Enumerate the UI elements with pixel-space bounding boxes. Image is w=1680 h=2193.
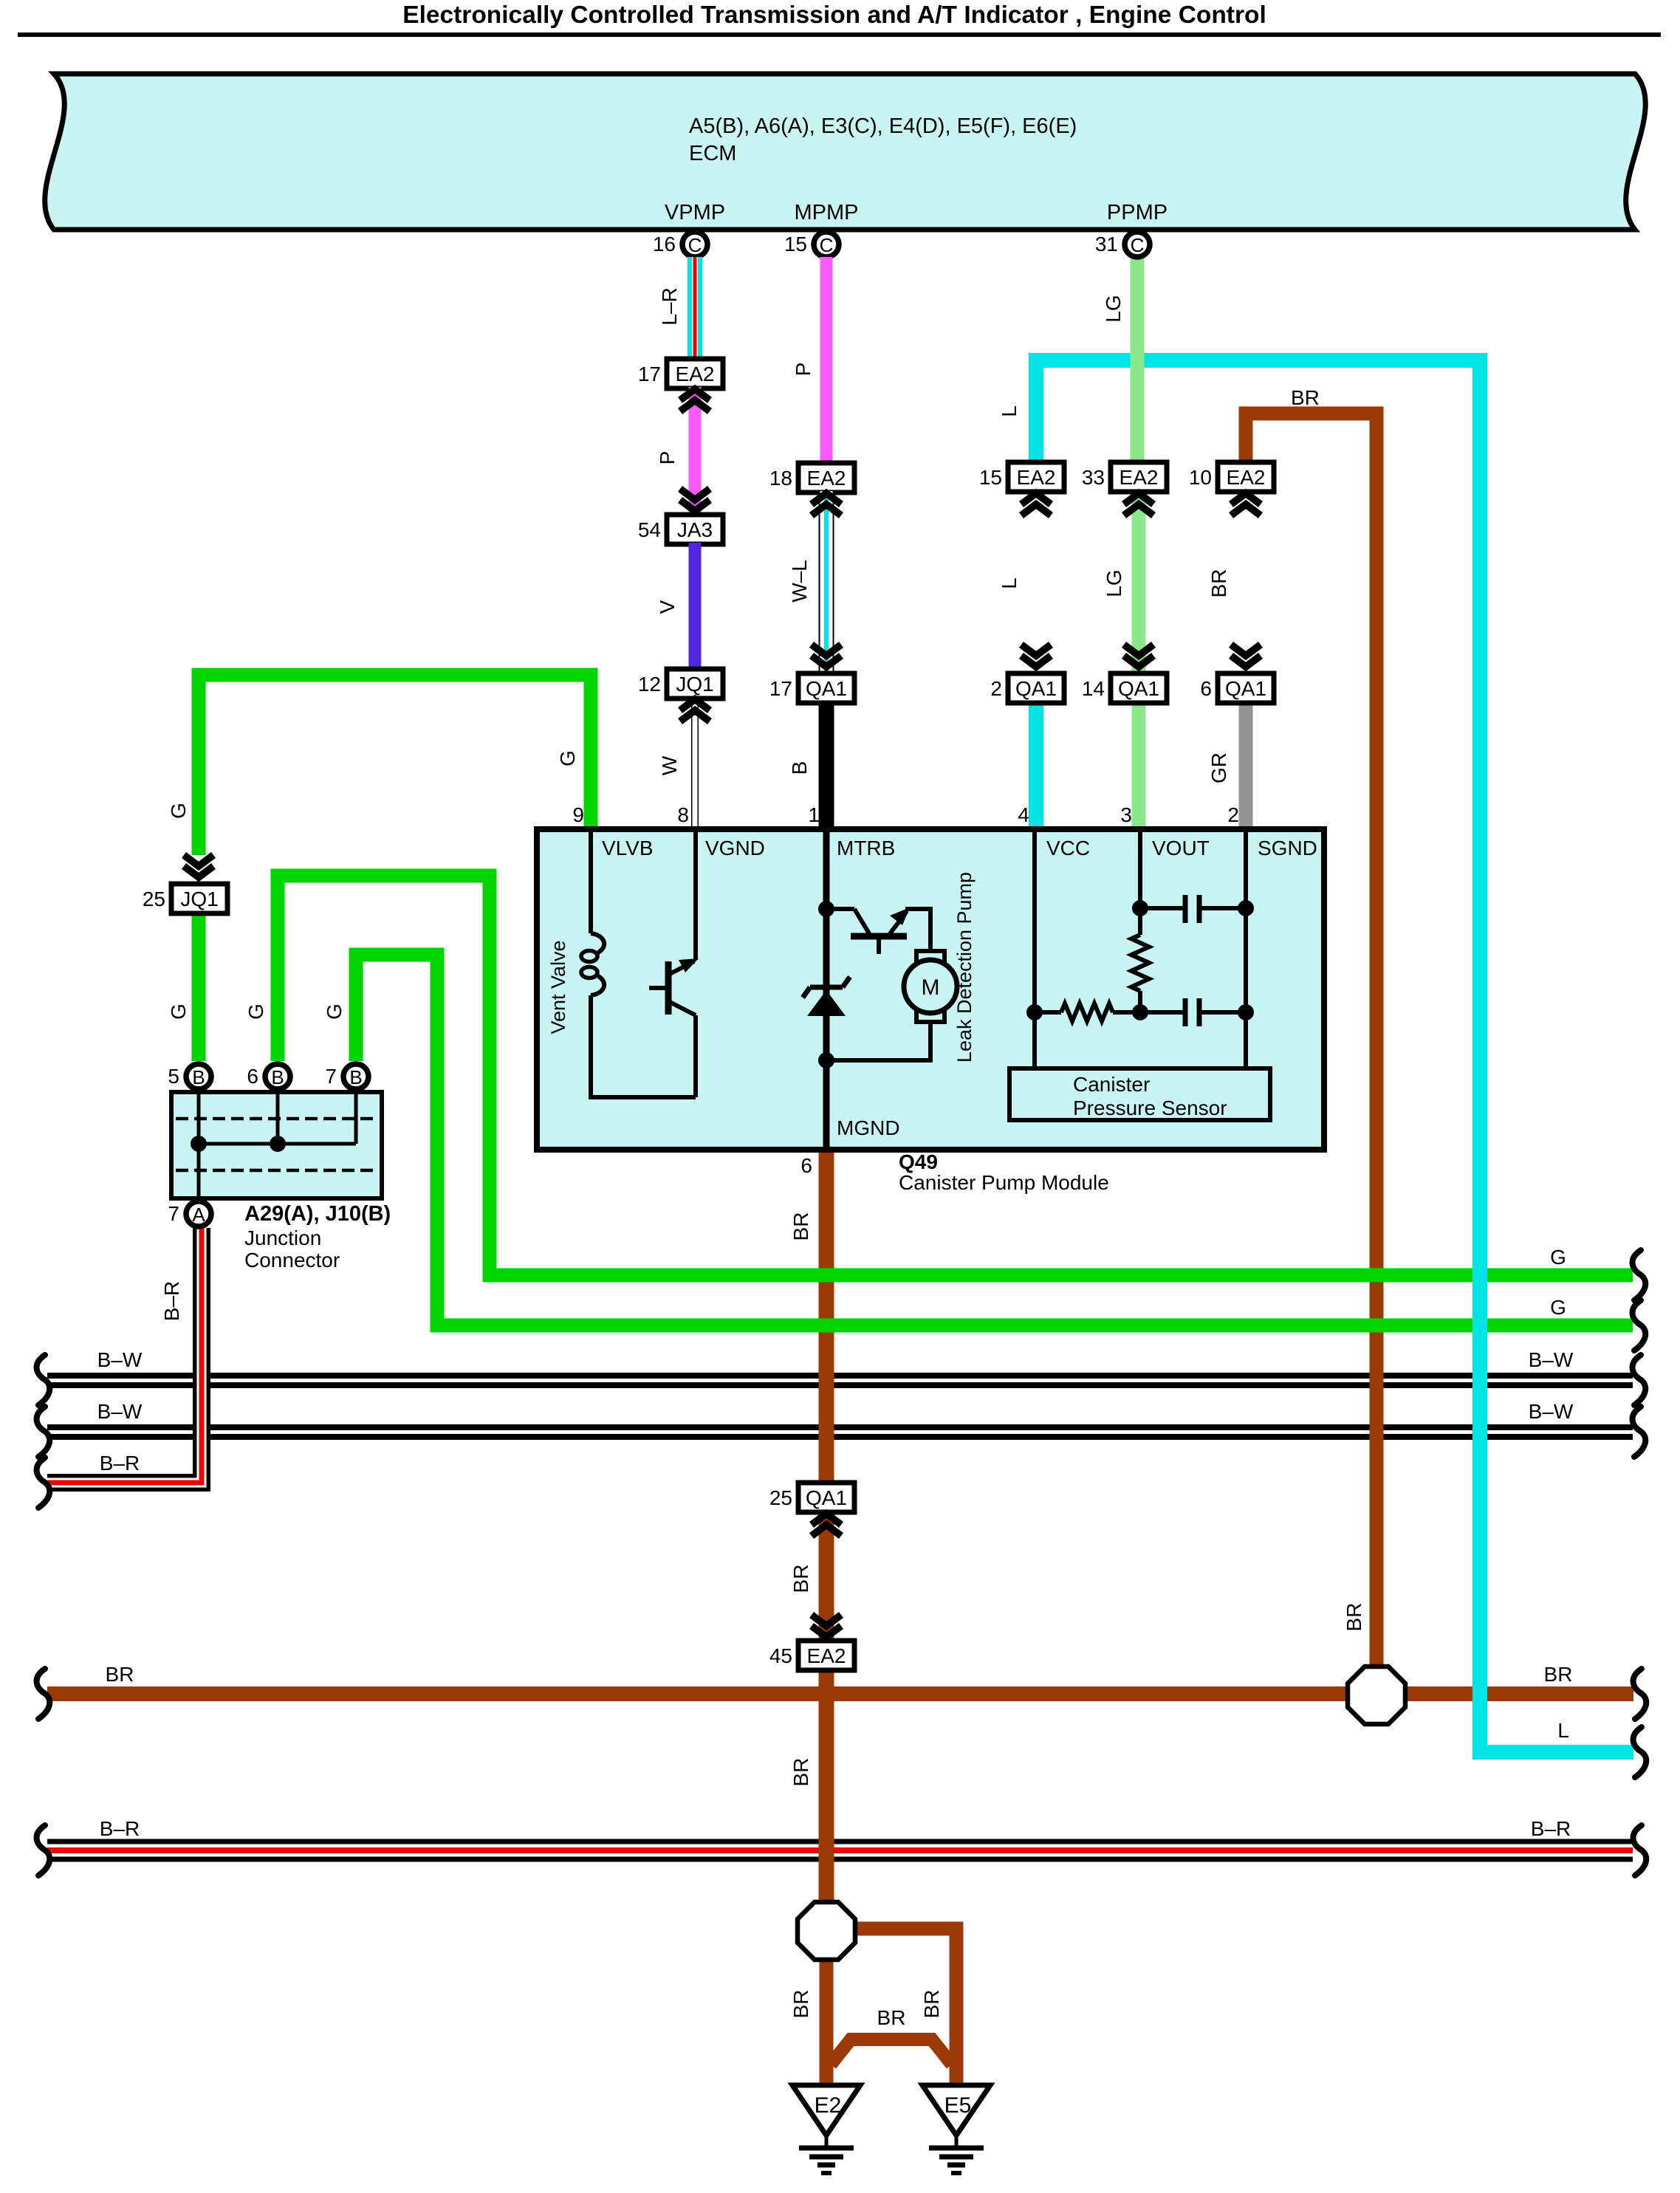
svg-text:A: A — [192, 1204, 205, 1226]
continuation squiggle BR bus left — [37, 1669, 50, 1719]
svg-text:6: 6 — [800, 1154, 812, 1177]
svg-text:B: B — [788, 761, 811, 775]
svg-text:W–L: W–L — [788, 560, 811, 603]
svg-text:BR: BR — [789, 1758, 812, 1787]
wire LG: QA1-14 down to pump pin 3 — [1132, 701, 1146, 829]
junction connector dashed line upper — [176, 1117, 377, 1121]
wire L: EA2-15 up, across top and down right side — [1036, 360, 1633, 1752]
transistor Q1 vent valve driver — [649, 958, 699, 1015]
chevron below EA2-17 — [680, 389, 710, 411]
svg-text:15: 15 — [784, 233, 807, 255]
continuation squiggle L right — [1633, 1727, 1647, 1777]
ground E5 — [922, 2085, 990, 2173]
svg-text:JQ1: JQ1 — [180, 888, 218, 910]
svg-text:1: 1 — [808, 803, 820, 826]
inductor coil of vent valve — [581, 933, 604, 995]
wire coil bottom to transistor emitter — [589, 1095, 696, 1099]
node SGND lower junction — [1238, 1004, 1254, 1020]
svg-text:QA1: QA1 — [1015, 677, 1057, 700]
capacitor C1 top — [1140, 895, 1246, 923]
svg-text:B: B — [349, 1066, 362, 1088]
svg-text:7: 7 — [168, 1202, 179, 1225]
connector 45 EA2 — [769, 1641, 854, 1670]
wire W: JQ1-12 to pump pin 8 — [691, 699, 699, 829]
svg-text:B–R: B–R — [1531, 1817, 1571, 1840]
svg-text:JA3: JA3 — [677, 518, 713, 541]
continuation squiggle G2 right — [1633, 1300, 1646, 1351]
svg-text:B–W: B–W — [97, 1348, 143, 1371]
svg-text:GR: GR — [1207, 752, 1230, 783]
chevron below EA2-10 — [1231, 493, 1261, 515]
svg-text:B: B — [271, 1066, 284, 1088]
svg-text:5: 5 — [168, 1065, 179, 1088]
svg-text:EA2: EA2 — [1120, 466, 1159, 489]
svg-text:L: L — [1557, 1719, 1569, 1742]
junction connector pin 7 B — [325, 1064, 368, 1089]
svg-text:BR: BR — [877, 2006, 906, 2029]
svg-text:E5: E5 — [944, 2093, 972, 2118]
svg-text:ECM: ECM — [689, 142, 736, 165]
wire motor to MGND line — [826, 1022, 930, 1060]
svg-text:2: 2 — [990, 677, 1002, 700]
ground E2 — [792, 2085, 860, 2173]
wire LG: ECM PPMP pin 31 down to EA2-33 — [1131, 257, 1145, 462]
splice octagon above grounds — [798, 1902, 855, 1960]
pin 31 C of ECM (PPMP) — [1095, 232, 1150, 257]
chevron above QA1-14 — [1124, 645, 1153, 667]
wire VLVB internal — [589, 829, 593, 933]
svg-text:B–R: B–R — [160, 1281, 183, 1321]
pin 16 C of ECM (VPMP) — [653, 232, 707, 257]
continuation squiggle B-W1 right — [1633, 1355, 1646, 1405]
node MTRB top junction — [818, 901, 834, 917]
node VOUT upper junction — [1132, 900, 1148, 916]
wire BR below EA2-45 to octagon splice — [819, 1669, 834, 1904]
svg-text:3: 3 — [1120, 803, 1132, 826]
svg-text:Pressure Sensor: Pressure Sensor — [1073, 1096, 1227, 1119]
wire B-R bus bottom — [47, 1842, 1633, 1859]
svg-text:PPMP: PPMP — [1107, 201, 1168, 224]
connector 14 QA1 — [1082, 673, 1167, 703]
capacitor C2 bottom — [1140, 998, 1246, 1026]
svg-text:EA2: EA2 — [1227, 466, 1266, 489]
svg-text:Junction: Junction — [244, 1226, 321, 1249]
node MGND junction — [818, 1052, 834, 1068]
wire VCC internal — [1032, 829, 1037, 1068]
ECM box — [45, 74, 1646, 230]
svg-text:A29(A), J10(B): A29(A), J10(B) — [244, 1202, 391, 1226]
wire BR vertical from canister pump MGND pin 6 — [819, 1150, 834, 1484]
continuation squiggle B-R left — [37, 1458, 50, 1508]
svg-text:V: V — [656, 600, 679, 614]
svg-text:VPMP: VPMP — [665, 201, 725, 224]
svg-text:LG: LG — [1102, 295, 1125, 322]
svg-text:BR: BR — [789, 1990, 812, 2019]
svg-text:Connector: Connector — [244, 1249, 340, 1271]
svg-text:A5(B), A6(A), E3(C), E4(D), E5: A5(B), A6(A), E3(C), E4(D), E5(F), E6(E) — [689, 114, 1077, 138]
svg-text:BR: BR — [1291, 386, 1320, 409]
node junction bus B6 — [270, 1136, 286, 1152]
continuation squiggle B-W1 left — [37, 1355, 50, 1405]
wire BR octagon to E2 ground — [820, 1958, 834, 2085]
svg-text:7: 7 — [325, 1065, 337, 1088]
chevron above JA3-54 — [680, 489, 710, 511]
wire L: QA1-2 down to pump pin 4 — [1029, 701, 1043, 829]
wire MTRB internal — [823, 829, 830, 1150]
svg-text:C: C — [688, 234, 702, 256]
svg-text:Electronically Controlled Tran: Electronically Controlled Transmission a… — [402, 1, 1266, 29]
chevron below EA2-15 — [1021, 493, 1051, 515]
svg-text:25: 25 — [143, 888, 165, 910]
resistor R2 horizontal — [1035, 1003, 1140, 1021]
svg-text:E2: E2 — [815, 2093, 842, 2118]
svg-text:EA2: EA2 — [676, 363, 715, 385]
svg-text:6: 6 — [1200, 677, 1212, 700]
svg-text:16: 16 — [653, 233, 676, 255]
chevron below EA2-18 — [812, 493, 841, 515]
wire VOUT internal upper — [1138, 829, 1142, 935]
wire G: JQ1-25 to junction B5 — [192, 910, 206, 1061]
junction connector pin 7 A — [168, 1201, 211, 1226]
svg-text:B–W: B–W — [97, 1400, 143, 1423]
svg-text:VGND: VGND — [705, 837, 765, 859]
node junction bus B5 — [191, 1136, 207, 1152]
svg-text:L: L — [998, 405, 1021, 417]
svg-text:BR: BR — [789, 1212, 812, 1241]
svg-text:Canister Pump Module: Canister Pump Module — [899, 1171, 1109, 1194]
svg-text:C: C — [1131, 234, 1145, 256]
chevron above QA1-17 — [812, 645, 841, 667]
svg-text:15: 15 — [979, 466, 1002, 489]
svg-text:MTRB: MTRB — [837, 837, 895, 859]
wire BR bridge between grounds — [831, 2039, 952, 2065]
svg-text:SGND: SGND — [1258, 837, 1317, 859]
wire LG: EA2-33 to QA1-14 — [1132, 490, 1146, 673]
label Canister Pressure Sensor — [1073, 1073, 1227, 1119]
wire G: junction B6 up and over to right edge — [278, 876, 1633, 1275]
svg-text:C: C — [820, 234, 834, 256]
chevron below EA2-33 — [1124, 493, 1153, 515]
wire GR: QA1-6 down to pump pin 2 — [1239, 701, 1253, 829]
svg-text:QA1: QA1 — [806, 1486, 847, 1509]
wire P: EA2-17 to JA3-54 — [689, 387, 702, 515]
junction internal bus — [199, 1142, 356, 1146]
wire G: ECM vent valve supply (JQ1-25 to pin 9) — [199, 675, 591, 855]
svg-text:QA1: QA1 — [1225, 677, 1266, 700]
svg-text:P: P — [792, 363, 815, 377]
svg-text:BR: BR — [1207, 569, 1230, 598]
svg-text:54: 54 — [638, 518, 661, 541]
connector 10 EA2 — [1189, 462, 1274, 492]
svg-text:G: G — [1550, 1296, 1566, 1319]
junction connector dashed line lower — [176, 1169, 377, 1173]
title underline — [18, 32, 1661, 37]
connector 2 QA1 — [990, 673, 1064, 703]
wire G: junction B7 up and over to right edge — [356, 955, 1633, 1325]
connector 17 QA1 — [769, 673, 854, 703]
junction internal wire from B5 — [197, 1092, 201, 1198]
wire MTRB to transistor Q2 — [826, 907, 854, 911]
wire B-W bus upper — [47, 1376, 1633, 1385]
junction internal wire from B6 — [276, 1092, 280, 1144]
wire SGND internal — [1244, 829, 1248, 1068]
svg-text:MGND: MGND — [837, 1116, 900, 1139]
wire B: QA1-17 to pump pin 1 — [819, 701, 834, 829]
connector 12 JQ1 — [638, 669, 723, 699]
connector 15 EA2 — [979, 462, 1064, 492]
svg-text:Leak Detection Pump: Leak Detection Pump — [953, 872, 976, 1063]
svg-text:Q49: Q49 — [899, 1150, 938, 1173]
svg-text:Canister: Canister — [1073, 1073, 1150, 1096]
continuation squiggle B-R bus left — [37, 1825, 50, 1875]
chevron above EA2-45 — [812, 1615, 841, 1637]
connector 33 EA2 — [1082, 462, 1167, 492]
chevron above QA1-6 — [1231, 645, 1261, 667]
wire V: JA3-54 to JQ1-12 — [689, 543, 702, 669]
wire Q2 emitter to motor — [905, 909, 930, 952]
wire below coil — [589, 995, 593, 1097]
wire VOUT internal lower — [1138, 991, 1142, 1012]
continuation squiggle B-W2 left — [37, 1407, 50, 1457]
chevron above QA1-2 — [1021, 645, 1051, 667]
junction connector A29(A) J10(B) box — [171, 1092, 382, 1198]
pin 15 C of ECM (MPMP) — [784, 232, 839, 257]
svg-text:BR: BR — [920, 1990, 943, 2019]
svg-text:25: 25 — [769, 1486, 792, 1509]
svg-text:B: B — [192, 1066, 205, 1088]
svg-text:Vent Valve: Vent Valve — [547, 940, 569, 1034]
wire VGND internal — [693, 829, 698, 960]
svg-text:EA2: EA2 — [807, 467, 846, 490]
svg-text:VCC: VCC — [1046, 837, 1090, 859]
svg-text:BR: BR — [1544, 1663, 1573, 1686]
junction internal wire from B7 — [354, 1092, 358, 1144]
connector 17 EA2 — [638, 359, 723, 388]
wire BR bus horizontal — [47, 1686, 1633, 1701]
svg-text:MPMP: MPMP — [795, 201, 859, 224]
connector 6 QA1 — [1200, 673, 1274, 703]
junction connector pin 6 B — [247, 1064, 290, 1089]
svg-text:M: M — [922, 975, 940, 1000]
continuation squiggle B-W2 right — [1633, 1407, 1646, 1457]
svg-text:EA2: EA2 — [1017, 466, 1056, 489]
wire transistor emitter down — [693, 1015, 698, 1097]
svg-text:VOUT: VOUT — [1152, 837, 1210, 859]
svg-text:31: 31 — [1095, 233, 1118, 255]
svg-text:G: G — [167, 1003, 190, 1020]
transistor Q2 pump motor driver — [851, 907, 910, 954]
svg-text:L–R: L–R — [658, 287, 681, 325]
node SGND upper junction — [1238, 900, 1254, 916]
svg-text:G: G — [244, 1003, 267, 1020]
connector 25 JQ1 — [143, 884, 227, 913]
svg-text:18: 18 — [769, 467, 792, 490]
chevron below JQ1-12 — [680, 699, 710, 721]
svg-text:G: G — [556, 750, 579, 766]
svg-text:B–R: B–R — [100, 1817, 140, 1840]
svg-text:JQ1: JQ1 — [676, 673, 713, 696]
wire BR from EA2-10 up and over to right vertical — [1246, 413, 1376, 1667]
chevron below QA1-25 — [812, 1514, 841, 1536]
svg-text:2: 2 — [1227, 803, 1239, 826]
svg-text:BR: BR — [106, 1663, 134, 1686]
svg-text:QA1: QA1 — [1118, 677, 1159, 700]
svg-text:B–R: B–R — [100, 1452, 140, 1475]
svg-text:B–W: B–W — [1529, 1348, 1574, 1371]
svg-text:LG: LG — [1103, 569, 1125, 597]
wire P: pin 15 to EA2-18 — [820, 257, 833, 463]
connector 25 QA1 — [769, 1483, 854, 1512]
svg-text:QA1: QA1 — [806, 677, 847, 700]
wire BR between QA1-25 and EA2-45 — [819, 1511, 834, 1642]
wire B-R left to junction connector — [47, 1228, 202, 1483]
svg-text:G: G — [167, 803, 190, 819]
connector 18 EA2 — [769, 463, 854, 493]
svg-text:10: 10 — [1189, 466, 1212, 489]
junction connector pin 5 B — [168, 1064, 211, 1089]
wire BR octagon right to E5 ground — [855, 1929, 956, 2085]
svg-text:8: 8 — [677, 803, 689, 826]
motor M of leak detection pump — [904, 951, 957, 1022]
continuation squiggle G1 right — [1633, 1250, 1646, 1300]
svg-text:EA2: EA2 — [807, 1644, 846, 1667]
node VCC junction — [1026, 1004, 1043, 1020]
node VOUT lower junction — [1132, 1004, 1148, 1020]
chevron above JQ1-25 — [184, 855, 213, 877]
svg-text:VLVB: VLVB — [602, 837, 654, 859]
resistor R1 vertical — [1131, 935, 1149, 991]
svg-text:G: G — [1550, 1246, 1566, 1269]
splice octagon on BR bus — [1348, 1667, 1405, 1724]
svg-text:P: P — [656, 451, 679, 465]
continuation squiggle BR bus right — [1633, 1669, 1647, 1719]
svg-text:W: W — [658, 755, 681, 775]
svg-text:L: L — [998, 577, 1021, 589]
svg-text:BR: BR — [789, 1565, 812, 1593]
svg-text:17: 17 — [769, 677, 792, 700]
canister pump module Q49 box — [537, 829, 1324, 1150]
svg-text:6: 6 — [247, 1065, 258, 1088]
svg-text:14: 14 — [1082, 677, 1105, 700]
svg-text:B–W: B–W — [1529, 1400, 1574, 1423]
svg-text:45: 45 — [769, 1644, 792, 1667]
svg-text:9: 9 — [572, 803, 584, 826]
continuation squiggle B-R bus right — [1633, 1825, 1647, 1875]
svg-text:12: 12 — [638, 673, 661, 696]
zener diode on MTRB line — [803, 977, 850, 1016]
svg-text:G: G — [323, 1003, 346, 1020]
svg-text:17: 17 — [638, 363, 661, 385]
connector 54 JA3 — [638, 515, 723, 544]
svg-text:33: 33 — [1082, 466, 1105, 489]
svg-text:4: 4 — [1018, 803, 1029, 826]
wire W-L: EA2-18 to QA1-17 — [819, 491, 834, 673]
canister pressure sensor box — [1009, 1068, 1270, 1120]
wire L-R: pin 16 to EA2-17 — [688, 257, 702, 359]
wire B-W bus lower — [47, 1427, 1633, 1437]
svg-text:BR: BR — [1343, 1603, 1365, 1632]
